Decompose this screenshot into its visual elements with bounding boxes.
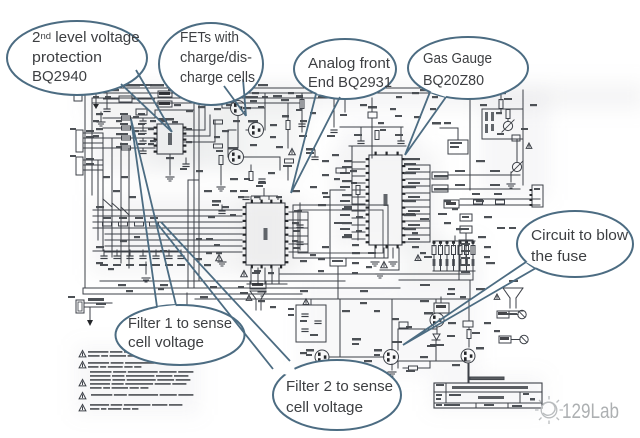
svg-text:charge cells: charge cells [180, 69, 255, 86]
svg-text:BQ20Z80: BQ20Z80 [423, 72, 484, 89]
svg-text:cell voltage: cell voltage [286, 399, 363, 416]
svg-text:protection: protection [32, 49, 102, 66]
svg-text:Gas Gauge: Gas Gauge [423, 50, 492, 67]
svg-text:the fuse: the fuse [531, 248, 587, 265]
svg-text:129Lab: 129Lab [562, 400, 619, 423]
svg-text:Filter 1 to sense: Filter 1 to sense [128, 315, 232, 332]
svg-text:BQ2940: BQ2940 [32, 68, 87, 85]
svg-text:Filter 2 to sense: Filter 2 to sense [286, 378, 393, 395]
svg-text:cell voltage: cell voltage [128, 334, 204, 351]
svg-text:End BQ2931: End BQ2931 [308, 74, 392, 91]
svg-text:charge/dis-: charge/dis- [180, 49, 252, 66]
svg-text:Analog front: Analog front [308, 55, 391, 72]
svg-text:Circuit to blow: Circuit to blow [531, 227, 628, 244]
svg-text:FETs with: FETs with [180, 29, 239, 46]
